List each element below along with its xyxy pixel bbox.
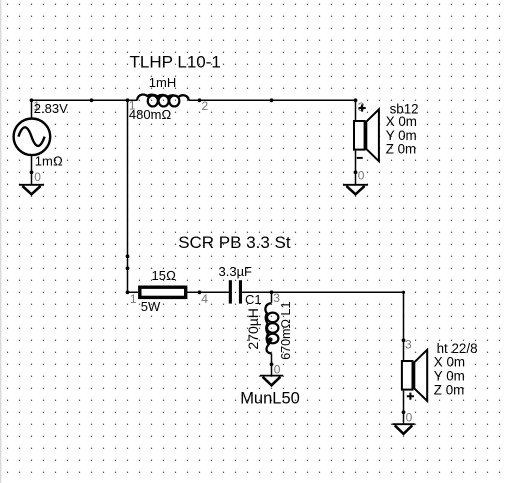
svg-text:270µH: 270µH <box>245 308 261 350</box>
svg-text:SCR PB 3.3 St: SCR PB 3.3 St <box>178 233 291 252</box>
svg-text:3: 3 <box>405 338 412 352</box>
svg-text:15Ω: 15Ω <box>152 268 176 283</box>
svg-text:MunL50: MunL50 <box>240 390 300 408</box>
svg-text:Z 0m: Z 0m <box>386 142 417 157</box>
svg-text:X 0m: X 0m <box>434 354 465 369</box>
svg-text:4: 4 <box>201 292 208 306</box>
svg-text:Z 0m: Z 0m <box>434 383 465 398</box>
svg-text:TLHP L10-1: TLHP L10-1 <box>130 52 221 71</box>
svg-text:Y 0m: Y 0m <box>434 368 465 383</box>
svg-text:1mΩ: 1mΩ <box>35 154 63 169</box>
svg-text:1: 1 <box>130 292 137 306</box>
svg-text:480mΩ: 480mΩ <box>129 107 172 122</box>
svg-text:C1: C1 <box>245 292 262 307</box>
svg-text:0: 0 <box>274 363 281 377</box>
svg-text:X 0m: X 0m <box>386 114 417 129</box>
svg-text:1mH: 1mH <box>149 75 176 90</box>
svg-text:Y 0m: Y 0m <box>386 128 417 143</box>
svg-text:0: 0 <box>358 169 365 183</box>
svg-text:5W: 5W <box>141 299 161 314</box>
svg-text:2.83V: 2.83V <box>34 101 68 116</box>
svg-text:3.3µF: 3.3µF <box>219 264 253 279</box>
svg-text:0: 0 <box>34 170 41 184</box>
svg-text:0: 0 <box>406 411 413 425</box>
svg-text:670mΩ L1: 670mΩ L1 <box>279 302 293 360</box>
